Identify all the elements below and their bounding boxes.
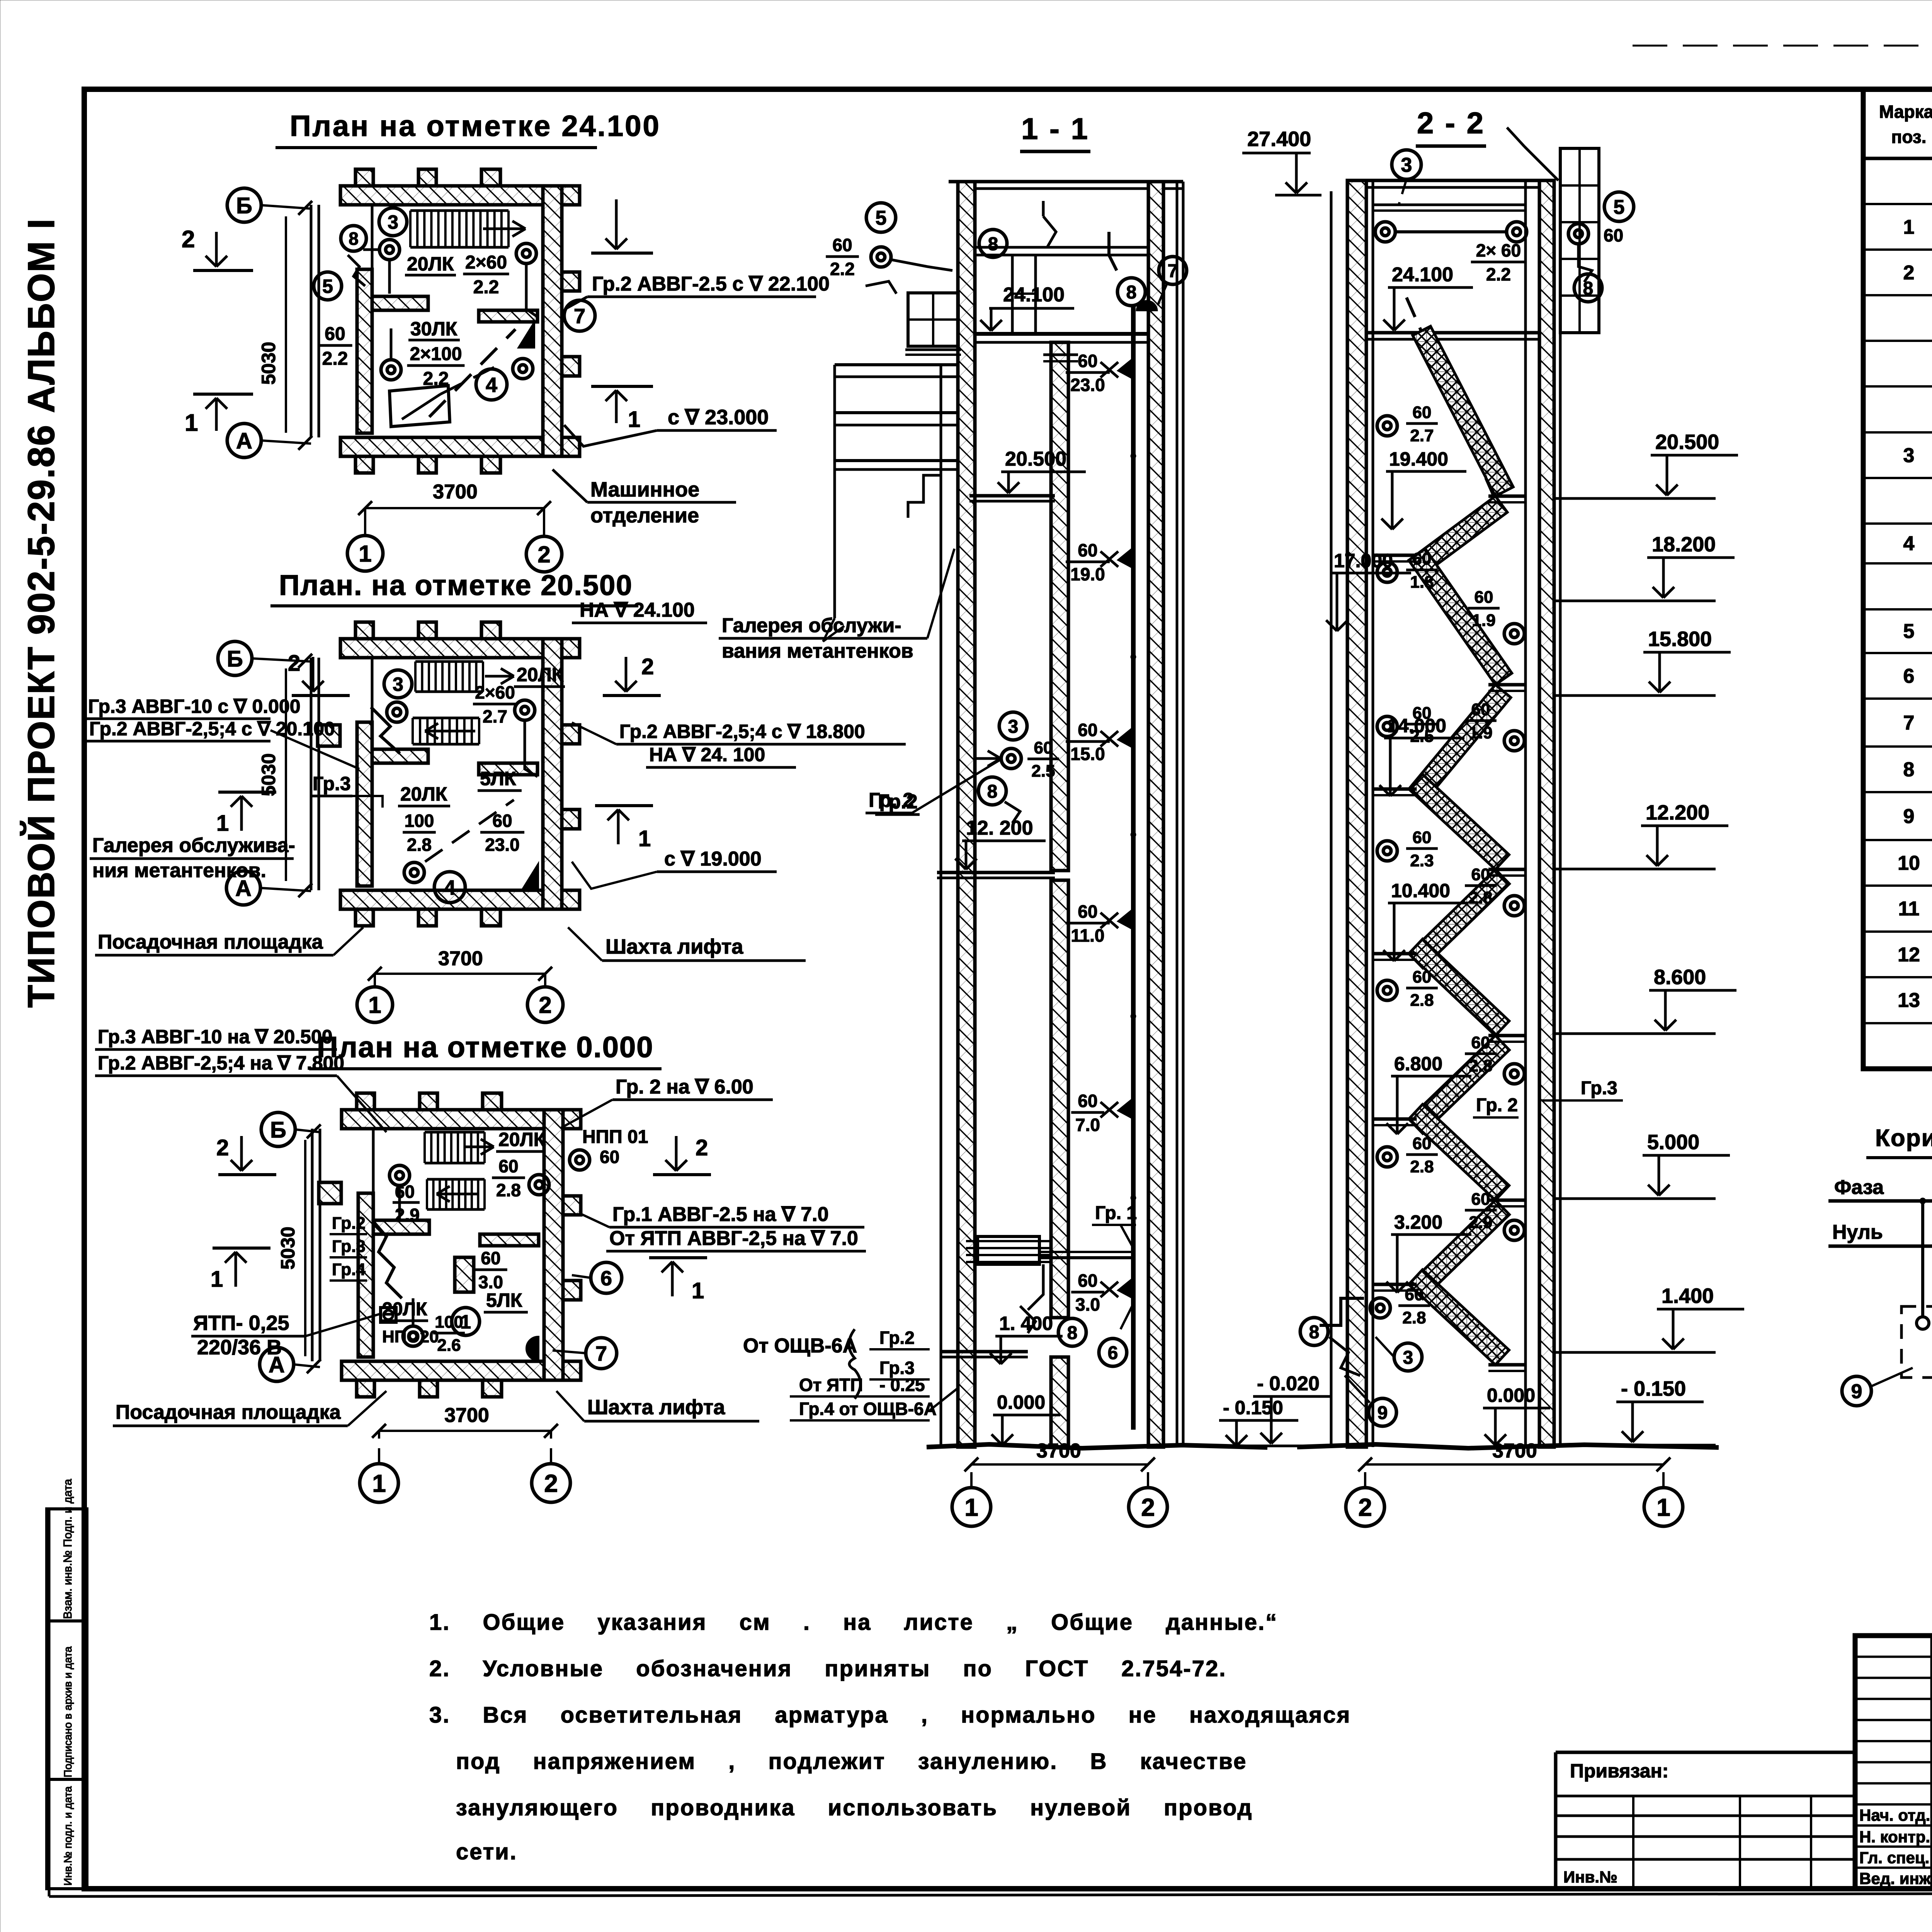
plan interior boundary — [371, 658, 374, 722]
stair flight 8 — [1409, 1036, 1509, 1133]
svg-text:5.000: 5.000 — [1647, 1131, 1699, 1154]
svg-text:2.8: 2.8 — [1469, 1056, 1492, 1075]
svg-text:60: 60 — [1604, 225, 1623, 245]
position circle 6 bottom — [1099, 1338, 1127, 1366]
plan-1 axis circle 2 — [526, 536, 562, 572]
plan right wall — [543, 639, 562, 909]
svg-text:Галерея обслужива-: Галерея обслужива- — [92, 834, 295, 857]
plan-1 dim 5030 — [285, 216, 287, 433]
position circle 8 mid — [978, 777, 1006, 805]
position circle 9 left — [1842, 1376, 1871, 1406]
section-1 shaft landing step — [1043, 354, 1078, 356]
section-2 axis circle 1 — [1644, 1488, 1683, 1526]
svg-text:Гр.3: Гр.3 — [1581, 1078, 1617, 1099]
section-1 shaft left wall — [1051, 342, 1068, 871]
plan-2 lamp L1 — [387, 702, 407, 722]
svg-text:Гр.1 АВВГ-2.5 на ∇ 7.0: Гр.1 АВВГ-2.5 на ∇ 7.0 — [612, 1203, 829, 1226]
svg-text:Гр.2: Гр.2 — [332, 1214, 366, 1233]
plan-2 stair flight up — [415, 660, 483, 663]
plan-3 ЯТП box — [381, 1308, 396, 1322]
svg-text:Гр.3 АВВГ-10 на ∇ 20.500: Гр.3 АВВГ-10 на ∇ 20.500 — [98, 1026, 333, 1048]
dashed cable diagonal over stairs — [1406, 298, 1494, 496]
svg-text:2.8: 2.8 — [1469, 888, 1492, 907]
svg-text:100: 100 — [405, 811, 434, 831]
position circle 9 bottom — [1369, 1398, 1396, 1426]
riser lamp 60/19.0 — [1119, 548, 1133, 568]
svg-text:Посадочная площадка: Посадочная площадка — [98, 931, 323, 953]
svg-text:3: 3 — [1403, 1347, 1413, 1368]
svg-text:13: 13 — [1898, 989, 1920, 1012]
svg-text:3. Вся осветительная: 3. Вся осветительная арматура , нормальн… — [429, 1702, 1351, 1728]
svg-text:60: 60 — [1078, 1270, 1097, 1291]
stair landings right — [1488, 495, 1526, 498]
stair landings left — [1374, 554, 1417, 557]
svg-text:поз.: поз. — [1891, 127, 1927, 147]
plan-2 position circle 4 — [434, 872, 465, 903]
svg-text:Гр. 2 на ∇ 6.00: Гр. 2 на ∇ 6.00 — [616, 1076, 753, 1098]
svg-text:Нач. отд.: Нач. отд. — [1859, 1806, 1930, 1824]
plan-3 dim 5030 — [304, 1140, 306, 1356]
landing slab 20.500 — [969, 494, 1055, 498]
svg-text:60: 60 — [1413, 968, 1432, 986]
plan outer top wall — [340, 639, 580, 658]
svg-text:2.7: 2.7 — [483, 706, 507, 726]
svg-text:зануляющего проводника: зануляющего проводника использовать нуле… — [456, 1795, 1253, 1820]
svg-text:А: А — [236, 429, 252, 454]
svg-text:19.0: 19.0 — [1070, 564, 1105, 584]
section-1 gallery edge line — [940, 365, 942, 1447]
stair flight 9 — [1409, 1104, 1509, 1200]
lamp bottom (2-2) — [1370, 1298, 1390, 1318]
plan-1 switch squiggle — [348, 255, 365, 286]
svg-text:Инв.№ подл. и дата: Инв.№ подл. и дата — [62, 1786, 74, 1886]
svg-text:15.0: 15.0 — [1070, 744, 1105, 764]
svg-text:2.2: 2.2 — [830, 259, 855, 279]
plan-3 axis circle А — [260, 1347, 294, 1381]
plan partition wall right segment — [479, 310, 537, 322]
section-1 window grid — [908, 293, 958, 346]
svg-text:8.600: 8.600 — [1654, 966, 1706, 989]
svg-text:5: 5 — [1614, 196, 1625, 219]
plan-3 position circle 7 — [586, 1338, 617, 1369]
plan-1 machine trapezoid — [389, 386, 450, 427]
svg-text:Инв.№: Инв.№ — [1563, 1868, 1617, 1886]
plan shaft inner wall — [357, 269, 372, 433]
plan partition wall left segment — [372, 749, 428, 763]
svg-text:3700: 3700 — [433, 481, 478, 503]
section-1 right outer lines — [1176, 182, 1179, 1447]
svg-text:60: 60 — [600, 1147, 619, 1167]
svg-text:НА ∇ 24. 100: НА ∇ 24. 100 — [649, 744, 765, 765]
revision table lines — [1556, 1795, 1855, 1798]
svg-text:24.100: 24.100 — [1003, 284, 1065, 306]
plan wall pilasters top — [355, 169, 373, 186]
svg-text:12: 12 — [1898, 944, 1920, 966]
svg-text:Шахта лифта: Шахта лифта — [605, 935, 743, 958]
svg-text:2× 60: 2× 60 — [1476, 240, 1521, 260]
svg-text:6: 6 — [1903, 665, 1915, 687]
svg-text:1.400: 1.400 — [1662, 1284, 1714, 1308]
svg-text:2: 2 — [1903, 262, 1915, 284]
svg-text:3: 3 — [388, 211, 398, 233]
stair flight 7 — [1409, 939, 1509, 1036]
landing slab 12.200 — [937, 871, 1055, 874]
svg-text:3700: 3700 — [438, 947, 483, 970]
svg-text:От ЯТП: От ЯТП — [799, 1375, 863, 1395]
svg-text:отделение: отделение — [590, 504, 699, 527]
plan-3 dim 3700 — [379, 1430, 551, 1432]
plan-2 position circle 3 — [384, 670, 412, 698]
svg-text:- 0.150: - 0.150 — [1223, 1397, 1283, 1418]
svg-text:1: 1 — [964, 1493, 978, 1521]
plan wall pilasters bottom — [355, 456, 373, 473]
svg-text:Гр.2 АВВГ-2,5;4 с ∇ 20.100: Гр.2 АВВГ-2,5;4 с ∇ 20.100 — [89, 718, 335, 740]
stair flight 4 — [1409, 685, 1511, 802]
svg-text:1: 1 — [1903, 216, 1915, 238]
lamp 60/1.8 left — [1377, 562, 1397, 582]
stair flight 11 — [1409, 1270, 1509, 1365]
svg-text:2.8: 2.8 — [1410, 1157, 1434, 1176]
left stamp box 2 — [47, 1621, 87, 1779]
svg-text:60: 60 — [1078, 1091, 1097, 1111]
svg-text:Гр.3 АВВГ-10 с ∇ 0.000: Гр.3 АВВГ-10 с ∇ 0.000 — [88, 696, 301, 717]
section-2 left wall — [1347, 180, 1366, 1447]
Привязан box — [1556, 1751, 1855, 1754]
svg-text:20.500: 20.500 — [1005, 448, 1066, 470]
svg-text:4: 4 — [486, 373, 497, 396]
svg-text:- 0.25: - 0.25 — [879, 1375, 925, 1395]
svg-text:5ЛК: 5ЛК — [486, 1289, 522, 1311]
svg-text:17.000: 17.000 — [1334, 550, 1393, 571]
svg-text:2: 2 — [1141, 1493, 1155, 1521]
plan partition wall left segment — [372, 296, 428, 310]
svg-text:2: 2 — [537, 542, 550, 568]
plan-3 central hatched pier — [455, 1257, 474, 1292]
plan-3 axis circle 1 — [360, 1464, 398, 1502]
plan shaft inner wall — [358, 1193, 373, 1357]
svg-text:От ЯТП АВВГ-2,5 на ∇ 7.0: От ЯТП АВВГ-2,5 на ∇ 7.0 — [609, 1227, 858, 1250]
plan-1 position circle 3 — [379, 208, 407, 236]
sheet top edge dashed line — [1633, 45, 1932, 47]
svg-text:10.400: 10.400 — [1391, 880, 1450, 901]
svg-text:4: 4 — [1903, 532, 1915, 555]
plan-1 axis leader Б — [261, 205, 311, 209]
svg-text:План на отметке 24.100: План на отметке 24.100 — [290, 110, 661, 143]
svg-text:9: 9 — [1378, 1403, 1388, 1423]
plan-1 axis circle Б — [227, 188, 261, 222]
svg-text:2: 2 — [1358, 1493, 1372, 1521]
plan-1 axis leader А — [261, 440, 311, 444]
svg-text:От ОЩВ-6А: От ОЩВ-6А — [743, 1335, 857, 1357]
section-1 ceiling lines — [975, 246, 1148, 249]
svg-text:1: 1 — [372, 1469, 386, 1497]
svg-text:60: 60 — [1413, 549, 1432, 568]
plan-1 lamp L1 — [379, 240, 400, 260]
svg-text:8: 8 — [1067, 1323, 1078, 1343]
svg-text:19.400: 19.400 — [1389, 448, 1448, 470]
plan wall pilasters top — [355, 622, 373, 639]
plan-2 stair flight low — [413, 717, 479, 719]
section-2 top slab — [1366, 179, 1539, 182]
stair flight 2 — [1409, 496, 1507, 577]
svg-text:Гр.2 АВВГ-2,5;4 с ∇ 18.800: Гр.2 АВВГ-2,5;4 с ∇ 18.800 — [619, 721, 865, 742]
svg-text:14.000: 14.000 — [1387, 715, 1446, 736]
svg-text:Б: Б — [227, 646, 243, 672]
plan-3 lamp L4 — [403, 1326, 423, 1346]
plan-3 left pilaster — [319, 1182, 341, 1204]
svg-text:1: 1 — [368, 992, 381, 1018]
svg-text:1.9: 1.9 — [1472, 611, 1495, 630]
svg-text:2×60: 2×60 — [465, 252, 507, 273]
plan-1 dim 3700 — [365, 507, 544, 509]
section-2 ground line — [1297, 1444, 1719, 1448]
svg-text:11.0: 11.0 — [1071, 925, 1105, 946]
plan-1 lamp L2 — [516, 243, 536, 264]
svg-text:Гр.2: Гр.2 — [879, 1328, 915, 1348]
section-1 axis circle 2 — [1129, 1488, 1167, 1526]
svg-text:Гр.2 АВВГ-2,5;4 на ∇ 7.800: Гр.2 АВВГ-2,5;4 на ∇ 7.800 — [98, 1052, 344, 1074]
svg-text:Гл. спец.: Гл. спец. — [1859, 1849, 1929, 1867]
svg-text:Шахта лифта: Шахта лифта — [587, 1396, 725, 1419]
section-2 right wall — [1539, 180, 1554, 1447]
svg-text:1: 1 — [359, 541, 371, 567]
lamp 60/2.9 right — [1504, 1220, 1524, 1240]
svg-text:- 0.020: - 0.020 — [1257, 1372, 1320, 1395]
wire: neutral line — [1828, 1245, 1932, 1248]
svg-text:30ЛК: 30ЛК — [410, 318, 457, 340]
lamp 60/2.3 left — [1377, 841, 1397, 861]
svg-text:100: 100 — [435, 1313, 463, 1332]
svg-text:60: 60 — [1078, 351, 1097, 371]
plan-3 stair flight 2 — [427, 1178, 485, 1181]
plan-2 axis circle 2 — [527, 987, 563, 1022]
svg-text:2: 2 — [182, 226, 195, 253]
svg-text:20.500: 20.500 — [1655, 430, 1719, 454]
svg-text:Посадочная площадка: Посадочная площадка — [116, 1401, 341, 1423]
signature grid rows — [1855, 1656, 1932, 1658]
lamp 60 outside — [1568, 224, 1588, 244]
svg-text:8: 8 — [987, 781, 998, 802]
plan shaft inner wall — [357, 722, 372, 886]
svg-text:2.8: 2.8 — [1402, 1308, 1426, 1327]
position circle 3 top — [1392, 150, 1421, 179]
panel box with wires — [978, 1236, 1039, 1264]
stamp outer box — [1855, 1636, 1932, 1889]
svg-text:8: 8 — [988, 234, 998, 254]
section-1 left wall — [958, 182, 975, 1447]
section-1 ground line — [927, 1444, 1267, 1448]
section-1 gallery edge — [833, 365, 836, 618]
plan-3 lamp L2 — [570, 1150, 590, 1170]
svg-text:60: 60 — [1413, 828, 1432, 847]
plan interior boundary — [371, 205, 374, 269]
plan-3 lamp L1 — [389, 1165, 410, 1185]
lamp 60/2.8 right — [1504, 896, 1524, 916]
position circle 8 (machine) — [979, 230, 1007, 257]
svg-text:18.200: 18.200 — [1652, 533, 1716, 556]
svg-text:под напряжением , подлежи: под напряжением , подлежит занулению. В … — [456, 1749, 1247, 1774]
riser lamp 60/3.0 — [1119, 1279, 1133, 1298]
svg-text:1: 1 — [1656, 1493, 1670, 1521]
svg-text:5ЛК: 5ЛК — [480, 768, 516, 789]
svg-text:Гр. 1: Гр. 1 — [1095, 1203, 1137, 1223]
svg-text:2.9: 2.9 — [1469, 1213, 1492, 1232]
svg-text:2.2: 2.2 — [322, 349, 348, 369]
plan-1 stair arrow — [483, 228, 526, 230]
svg-text:ЯТП- 0,25: ЯТП- 0,25 — [193, 1311, 289, 1335]
svg-text:3: 3 — [393, 673, 403, 695]
section-1 right wall — [1148, 182, 1163, 1447]
svg-text:15.800: 15.800 — [1648, 628, 1712, 651]
plan-2 lamp L2 — [515, 700, 535, 720]
svg-text:3700: 3700 — [1492, 1440, 1537, 1462]
plan outer bottom wall — [340, 890, 580, 909]
plan-3 position circle 6 — [591, 1262, 622, 1293]
position circle 8 right — [1117, 278, 1145, 306]
plan-3 axis circle Б — [261, 1112, 295, 1146]
svg-text:3.200: 3.200 — [1394, 1211, 1442, 1233]
section-1 axis circle 1 — [952, 1488, 991, 1526]
wire: phase line — [1828, 1199, 1932, 1203]
svg-text:с ∇ 23.000: с ∇ 23.000 — [668, 406, 769, 429]
svg-text:60: 60 — [1471, 1190, 1490, 1209]
svg-text:2: 2 — [216, 1135, 229, 1160]
plan-1 wire drops — [388, 260, 391, 294]
plan-1 position circle 5 — [314, 272, 342, 300]
plan wall pilasters bottom — [357, 1380, 374, 1397]
svg-text:8: 8 — [1309, 1322, 1320, 1342]
svg-text:1. Общие указания: 1. Общие указания см . на листе „ Общие … — [429, 1610, 1278, 1635]
svg-text:7: 7 — [595, 1342, 607, 1365]
switch S1 dashed box — [1901, 1306, 1932, 1378]
wire drop to panel — [1028, 1264, 1043, 1310]
svg-text:5030: 5030 — [258, 342, 279, 384]
svg-text:60: 60 — [1475, 588, 1493, 607]
stair flight 3 — [1409, 549, 1512, 685]
wire: phase drop left — [1921, 1201, 1924, 1316]
svg-text:60: 60 — [1034, 738, 1053, 757]
svg-text:60: 60 — [1078, 901, 1097, 922]
svg-text:Б: Б — [270, 1117, 286, 1143]
lamp 60/1.9 upper right — [1504, 624, 1524, 644]
plan-1 position circle 4 — [476, 369, 507, 400]
svg-text:0.000: 0.000 — [1487, 1384, 1535, 1406]
plan-2 left pilaster — [318, 725, 340, 746]
svg-text:2: 2 — [641, 654, 654, 679]
svg-text:2: 2 — [288, 651, 300, 676]
machine floor slab (2-2) — [1366, 331, 1539, 335]
svg-text:Н. контр.: Н. контр. — [1859, 1828, 1930, 1846]
svg-text:3.0: 3.0 — [1075, 1294, 1100, 1315]
plan-2 switch panel triangle — [524, 866, 537, 889]
svg-text:Нуль: Нуль — [1832, 1221, 1883, 1243]
svg-text:5: 5 — [876, 207, 887, 230]
lamp 60/2.8 left — [1377, 980, 1397, 1000]
section-2 top-right ramp — [1524, 146, 1558, 180]
svg-text:1.8: 1.8 — [1410, 573, 1434, 592]
svg-text:1: 1 — [185, 410, 198, 436]
plan outer top wall — [342, 1110, 581, 1129]
plan wall pilasters bottom — [355, 909, 373, 926]
plan-1 position circle 7 — [564, 300, 595, 331]
svg-text:2.5: 2.5 — [1031, 762, 1055, 781]
svg-text:Гр.4: Гр.4 — [332, 1260, 366, 1279]
section-1 machine room floor 24.100 — [975, 332, 1148, 336]
svg-text:2: 2 — [696, 1135, 708, 1160]
svg-text:5: 5 — [1903, 620, 1915, 643]
position circle 8 bottom — [1058, 1318, 1086, 1346]
svg-text:Гр. 2: Гр. 2 — [1476, 1095, 1518, 1116]
switch S1 contacts — [1917, 1317, 1929, 1329]
svg-text:2.2: 2.2 — [1486, 264, 1511, 284]
svg-text:7.0: 7.0 — [1075, 1115, 1100, 1135]
svg-text:2: 2 — [539, 992, 551, 1018]
svg-text:8: 8 — [1903, 759, 1915, 781]
svg-text:23.0: 23.0 — [1070, 375, 1105, 395]
svg-text:3: 3 — [1008, 716, 1019, 737]
plan-3 position circle 1 — [452, 1308, 480, 1335]
plan-2 dim 5030 — [285, 668, 287, 881]
plan wall pilasters right — [562, 725, 580, 744]
svg-text:2×60: 2×60 — [475, 682, 515, 702]
section-2 axis circle 2 — [1346, 1488, 1384, 1526]
svg-text:7: 7 — [1903, 712, 1915, 734]
svg-text:3700: 3700 — [444, 1404, 489, 1427]
slab 1.400 — [941, 1350, 1028, 1354]
svg-text:1: 1 — [692, 1278, 704, 1303]
svg-text:0.000: 0.000 — [997, 1391, 1045, 1413]
position circle 5 (2-2) — [1604, 192, 1634, 221]
svg-text:9: 9 — [1903, 805, 1915, 828]
lamp 60/2.8 right — [1504, 1064, 1524, 1084]
svg-text:2: 2 — [544, 1469, 558, 1497]
svg-text:12.200: 12.200 — [1646, 801, 1709, 824]
svg-text:10: 10 — [1898, 852, 1920, 874]
svg-text:План. на отметке 20.500: План. на отметке 20.500 — [279, 569, 633, 601]
sheet bottom edge line — [49, 1893, 1932, 1896]
position circle 3 mid — [999, 712, 1027, 740]
plan-2 axis circle Б — [218, 641, 252, 675]
svg-text:27.400: 27.400 — [1247, 128, 1311, 151]
plan-3 stair flight — [425, 1131, 485, 1134]
plan outer bottom wall — [340, 437, 580, 456]
svg-text:1.9: 1.9 — [1469, 723, 1492, 742]
svg-text:7: 7 — [1168, 261, 1178, 281]
section-2 left outer line — [1330, 191, 1333, 1447]
svg-text:8: 8 — [1126, 282, 1137, 303]
svg-text:НПО20: НПО20 — [382, 1327, 439, 1346]
svg-text:вания метантенков: вания метантенков — [722, 640, 913, 662]
svg-text:Подписано в архив и дата: Подписано в архив и дата — [62, 1646, 74, 1777]
svg-text:7: 7 — [574, 304, 585, 328]
svg-text:60: 60 — [1078, 540, 1097, 560]
svg-text:5: 5 — [322, 276, 333, 297]
svg-text:9: 9 — [1851, 1381, 1862, 1403]
riser lamp 60/15.0 — [1119, 728, 1133, 747]
position circle 7 and socket — [1159, 257, 1187, 284]
svg-text:23.0: 23.0 — [485, 835, 520, 855]
svg-text:1: 1 — [638, 826, 651, 851]
lamp 60/1.9 right — [1504, 731, 1524, 751]
svg-text:1: 1 — [211, 1267, 223, 1292]
plan outer top wall — [340, 186, 580, 205]
svg-text:НА ∇ 24.100: НА ∇ 24.100 — [580, 599, 695, 621]
section-1 riser cable — [1131, 305, 1136, 1430]
plan-1 switchboard triangle — [520, 325, 534, 347]
svg-text:1 - 1: 1 - 1 — [1021, 112, 1089, 146]
svg-text:60: 60 — [1471, 1033, 1490, 1052]
svg-text:20ЛК: 20ЛК — [400, 783, 447, 805]
